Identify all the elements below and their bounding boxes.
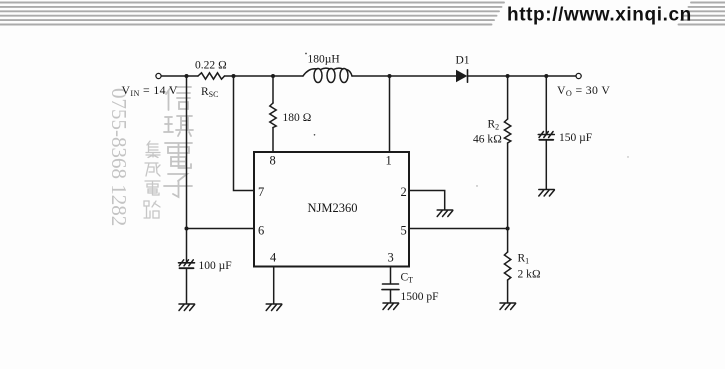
op-amp U1 NJM2360 box — [254, 152, 409, 267]
node 180ohm branch — [271, 74, 275, 78]
wire node to R1 — [507, 229, 509, 253]
svg-text:VIN = 14 V: VIN = 14 V — [122, 83, 178, 98]
svg-text:VO = 30 V: VO = 30 V — [557, 83, 610, 98]
node pin6 junction — [185, 227, 189, 231]
svg-text:CT: CT — [401, 272, 414, 285]
resistor Rsc 0.22ohm — [198, 73, 225, 79]
ground below R1 — [500, 303, 516, 310]
svg-text:D1: D1 — [456, 55, 470, 67]
svg-text:180 Ω: 180 Ω — [283, 112, 312, 124]
wire top rail from terminal to Rsc — [161, 75, 198, 77]
capacitor 100uF — [179, 260, 195, 268]
node pin7 branch — [232, 74, 236, 78]
svg-text:150 µF: 150 µF — [559, 132, 592, 144]
wire junction to 100uF — [186, 229, 188, 263]
watermark char 成 — [145, 163, 160, 176]
watermark char 電 — [165, 143, 192, 168]
watermark char 路 — [144, 201, 160, 218]
svg-text:http://www.xinqi.cn: http://www.xinqi.cn — [507, 5, 692, 26]
wire R2 to pin5 node — [507, 143, 509, 229]
resistor R2 46k — [504, 119, 510, 143]
input terminal VIN — [156, 73, 161, 78]
svg-text:1500 pF: 1500 pF — [401, 291, 439, 303]
wire pin3 to CT — [390, 267, 392, 284]
wire node to pin1 — [389, 76, 391, 152]
svg-text:46 kΩ: 46 kΩ — [473, 134, 502, 146]
svg-text:2: 2 — [401, 185, 407, 199]
wire node to 150uF — [545, 76, 547, 134]
wire pin7 L-path — [234, 76, 255, 191]
capacitor CT 1500pF — [382, 284, 399, 290]
svg-text:3: 3 — [388, 251, 394, 265]
resistor R1 2k — [504, 252, 510, 280]
node pin1 branch — [388, 74, 392, 78]
watermark char 集 — [146, 141, 160, 158]
watermark char 電 — [145, 181, 160, 195]
inductor 180uH — [303, 68, 352, 82]
wire D1 to output — [468, 75, 577, 77]
ground below 150uF — [539, 190, 555, 197]
svg-text:6: 6 — [258, 224, 264, 238]
svg-text:2 kΩ: 2 kΩ — [518, 269, 541, 281]
wire inductor to D1 — [352, 75, 456, 77]
wire 150uF to ground — [545, 141, 547, 190]
svg-text:0755-8368 1282: 0755-8368 1282 — [107, 88, 131, 226]
watermark char 信 — [166, 87, 191, 110]
scan specks — [305, 53, 629, 187]
capacitor 150uF — [538, 132, 554, 140]
wire CT to ground — [390, 290, 392, 303]
svg-text:100 µF: 100 µF — [199, 260, 232, 272]
wire pin6 horizontal — [187, 228, 255, 230]
wire left vertical down to pin6 node — [186, 76, 188, 229]
ground below CT — [383, 303, 399, 310]
svg-text:NJM2360: NJM2360 — [308, 201, 358, 215]
svg-text:R2: R2 — [488, 119, 500, 132]
ground pin4 — [266, 304, 282, 311]
watermark char 琪 — [164, 116, 193, 136]
svg-text:1: 1 — [386, 154, 392, 168]
wire node to R2 — [507, 76, 509, 119]
wire 180ohm to pin8 — [272, 128, 274, 153]
svg-text:4: 4 — [270, 251, 277, 265]
node 150uF branch — [544, 74, 548, 78]
wire R1 to ground — [507, 280, 509, 303]
svg-text:R1: R1 — [518, 253, 530, 266]
wire 100uF to ground — [186, 269, 188, 304]
header stripes — [0, 3, 725, 25]
diode D1 — [456, 70, 467, 82]
node pin5 junction — [506, 227, 510, 231]
svg-text:8: 8 — [270, 154, 276, 168]
svg-text:0.22 Ω: 0.22 Ω — [195, 60, 227, 72]
wire pin5 horizontal — [409, 228, 508, 230]
node input junction — [185, 74, 189, 78]
node R2 branch — [506, 74, 510, 78]
output terminal VO — [576, 73, 581, 78]
wire Rsc to inductor — [225, 75, 304, 77]
wire pin4 to ground — [273, 267, 275, 304]
resistor 180ohm — [270, 103, 276, 128]
ground pin2 — [437, 210, 453, 217]
watermark char 子 — [164, 174, 192, 197]
svg-text:RSC: RSC — [201, 86, 218, 99]
svg-text:180µH: 180µH — [308, 54, 340, 66]
wire node to 180ohm resistor — [272, 76, 274, 103]
ground below 100uF — [179, 304, 195, 311]
svg-text:5: 5 — [401, 224, 407, 238]
wire pin2 to ground — [409, 191, 445, 210]
svg-text:7: 7 — [258, 185, 264, 199]
